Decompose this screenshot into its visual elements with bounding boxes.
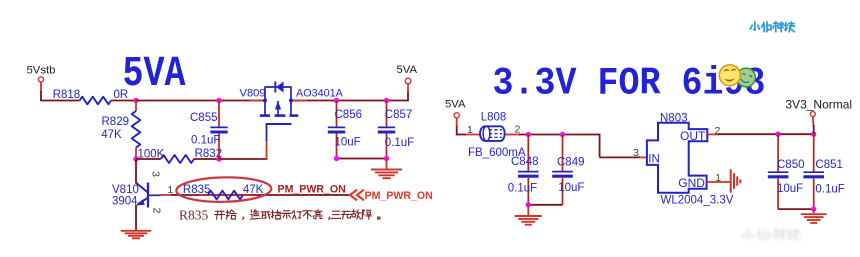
capacitor C848	[527, 135, 529, 172]
op mosfet V809 AO3401A	[260, 82, 299, 125]
svg-text:3: 3	[150, 171, 162, 177]
svg-text:5VA: 5VA	[397, 64, 418, 76]
svg-text:0.1uF: 0.1uF	[508, 182, 537, 194]
svg-text:47K: 47K	[243, 184, 264, 196]
svg-text:L808: L808	[481, 112, 507, 124]
port 3V3_Normal	[811, 112, 816, 117]
svg-text:R818: R818	[53, 89, 80, 101]
svg-text:5VA: 5VA	[123, 50, 187, 98]
svg-text:N803: N803	[660, 112, 688, 124]
wire bottom rail	[136, 158, 161, 160]
wire ground stem far right	[813, 209, 815, 214]
svg-text:OUT: OUT	[680, 129, 706, 143]
resistor R835	[199, 194, 252, 196]
svg-text:R835: R835	[183, 184, 211, 196]
svg-text:V809: V809	[240, 88, 266, 100]
svg-text:5Vstb: 5Vstb	[27, 65, 56, 77]
node C850 junction	[775, 132, 780, 137]
wire node B to transistor collector	[135, 159, 137, 184]
node bottom right junction	[811, 206, 816, 211]
svg-text:2: 2	[515, 123, 521, 135]
wire C848 C849 bottom rail	[528, 204, 562, 206]
ground under C851	[801, 213, 827, 215]
wire caps bottom rail	[337, 158, 387, 160]
port 5VA right-top	[405, 78, 411, 84]
svg-text:1: 1	[168, 184, 174, 196]
smiley yellow	[719, 65, 740, 86]
node caps bottom right junction	[384, 156, 389, 161]
svg-text:2: 2	[715, 125, 721, 137]
svg-text:2: 2	[151, 208, 163, 214]
smiley green	[734, 66, 758, 90]
node C855 top junction	[216, 98, 221, 103]
svg-text:V810: V810	[112, 184, 139, 196]
pin 1 inductor	[466, 134, 481, 136]
svg-text:5VA: 5VA	[445, 99, 466, 111]
regulator N803 WL2004 body	[647, 123, 707, 193]
capacitor C855	[218, 101, 220, 128]
svg-text:GND: GND	[678, 176, 705, 190]
node C856 junction	[334, 98, 339, 103]
svg-text:10uF: 10uF	[777, 183, 803, 195]
svg-text:3904: 3904	[112, 196, 138, 208]
svg-text:0.1uF: 0.1uF	[815, 183, 844, 195]
port 5VA left	[454, 113, 459, 118]
svg-text:AO3401A: AO3401A	[296, 88, 344, 100]
svg-text:R835: R835	[179, 207, 209, 222]
node C857 junction	[384, 98, 389, 103]
wire emitter to ground	[135, 205, 137, 231]
svg-text:C850: C850	[777, 159, 805, 171]
svg-text:1: 1	[467, 124, 473, 136]
wire ground stem right1	[527, 205, 529, 216]
pin 2 OUT wire	[707, 133, 719, 135]
wire L808 to corner	[519, 134, 600, 136]
wire 5VA down to rail	[456, 118, 458, 127]
svg-text:C849: C849	[557, 157, 585, 169]
svg-text:0R: 0R	[114, 89, 129, 101]
svg-text:R829: R829	[102, 116, 130, 128]
chevron input port	[350, 190, 364, 201]
pin 1 GND wire	[707, 181, 730, 183]
svg-text:C856: C856	[335, 109, 363, 121]
capacitor C850	[777, 134, 779, 172]
wire base PM_PWR_ON	[161, 194, 173, 196]
svg-text:10uF: 10uF	[335, 136, 361, 148]
svg-text:WL2004_3.3V: WL2004_3.3V	[661, 194, 734, 206]
svg-text:0.1uF: 0.1uF	[191, 135, 220, 147]
pin 3 IN stub	[640, 156, 648, 158]
node caps bottom left junction	[334, 156, 339, 161]
svg-text:10uF: 10uF	[558, 182, 584, 194]
svg-text:IN: IN	[648, 153, 660, 165]
logo text	[750, 22, 759, 30]
resistor R829	[135, 101, 137, 112]
svg-text:C855: C855	[190, 112, 218, 124]
svg-text:C848: C848	[511, 156, 539, 168]
wire R818 to node A	[111, 100, 136, 102]
svg-text:PM_PWR_ON: PM_PWR_ON	[365, 190, 433, 202]
ground under C848	[515, 215, 542, 217]
node 3V3 junction	[811, 132, 816, 137]
node A junction	[133, 98, 138, 103]
wire C850 C851 bottom rail	[778, 208, 814, 210]
node C848 junction	[526, 132, 531, 137]
highlight ellipse around R835	[176, 176, 271, 202]
wire corner to IN	[599, 134, 601, 158]
svg-text:PM_PWR_ON: PM_PWR_ON	[278, 184, 346, 196]
node B junction	[133, 156, 138, 161]
wire gate rail	[219, 158, 267, 160]
ground right-facing at GND pin	[730, 169, 732, 192]
ground under V810	[121, 230, 151, 232]
capacitor C857	[386, 101, 388, 128]
wire 5Vstb down	[40, 82, 42, 92]
capacitor C856	[336, 101, 338, 128]
svg-text:47K: 47K	[101, 129, 122, 141]
ground under C857	[371, 169, 402, 171]
wire ground stem	[386, 159, 388, 170]
node C849 junction	[560, 132, 565, 137]
watermark	[742, 228, 800, 241]
resistor R832	[161, 155, 194, 163]
wire 5VA port down	[407, 84, 409, 93]
wire top rail mosfet to 5VA port	[291, 100, 408, 102]
resistor R818	[80, 97, 111, 105]
wire 3V3 port down	[812, 117, 815, 127]
capacitor C851	[813, 134, 815, 172]
svg-text:C857: C857	[385, 109, 413, 121]
port 5Vstb	[38, 77, 43, 82]
pin 2 inductor	[506, 134, 521, 136]
svg-text:3: 3	[633, 147, 639, 159]
svg-text:0.1uF: 0.1uF	[385, 137, 414, 149]
wire top rail A to mosfet	[136, 100, 265, 102]
transistor V810 3904	[136, 183, 161, 208]
svg-text:C851: C851	[815, 159, 843, 171]
node ground junction	[526, 202, 531, 207]
capacitor C849	[562, 135, 564, 172]
svg-text:1: 1	[715, 172, 721, 184]
inductor L808 ferrite bead	[480, 126, 505, 141]
node C855 bottom junction	[216, 156, 221, 161]
svg-text:3V3_Normal: 3V3_Normal	[785, 97, 852, 111]
